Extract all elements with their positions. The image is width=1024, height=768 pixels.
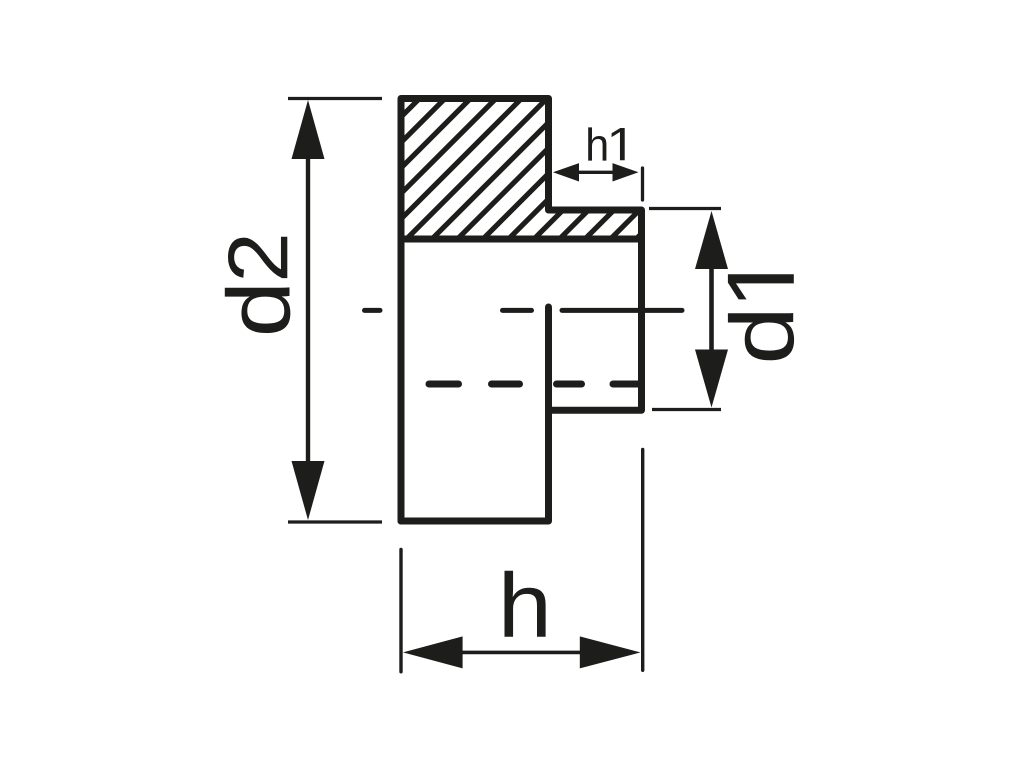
section hatching (flange head and boss collar) bbox=[269, 89, 787, 250]
dimension h: extension lines and dimension line bbox=[401, 450, 643, 672]
dimension d1: upper arrowhead bbox=[695, 211, 728, 269]
dimension h: left arrowhead bbox=[403, 636, 463, 668]
part outline: flange left/top edge, step and boss profile bbox=[401, 99, 642, 522]
dimension d1: lower arrowhead bbox=[695, 350, 728, 408]
dimension h1: right extension line bbox=[641, 168, 644, 200]
dimension d2: upper arrowhead bbox=[292, 100, 325, 159]
centre line of bore bbox=[365, 308, 683, 313]
dimension d2: extension ticks and dimension line bbox=[288, 99, 382, 523]
dimension d1: extension ticks and dimension line bbox=[649, 209, 721, 410]
hidden bore dashed line (lower half) bbox=[429, 381, 641, 388]
bore edge line (through-hole, sectioned upper half) bbox=[401, 236, 642, 243]
dimension d2: lower arrowhead bbox=[292, 461, 325, 520]
label h bbox=[505, 571, 546, 637]
label h1 bbox=[588, 127, 625, 160]
label d1 (rotated) bbox=[728, 274, 794, 360]
dimension h1: dimension line bbox=[575, 171, 617, 174]
label d2 (rotated) bbox=[225, 237, 291, 333]
dimension h: right arrowhead bbox=[580, 636, 641, 668]
dimension h1: right arrowhead bbox=[613, 163, 639, 181]
part outline: flange lower right edge and bottom edge bbox=[401, 307, 549, 521]
dimension h1: left arrowhead bbox=[553, 163, 579, 181]
